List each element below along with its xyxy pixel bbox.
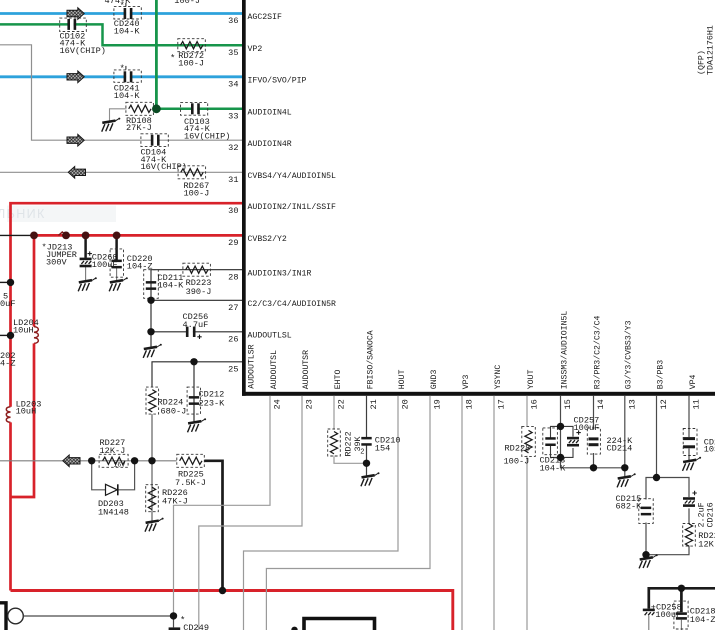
svg-text:0uF: 0uF [0,299,15,309]
wire CD260 lead thick [84,235,87,257]
resistor RD225 [177,454,205,467]
svg-text:100-J: 100-J [504,457,530,467]
arrow pin36 input [67,8,84,20]
wire pin15 CD213 loop [551,426,561,457]
ground pin13 net [617,473,636,487]
wire pin35 green VP2 [0,24,242,45]
svg-text:24: 24 [273,399,283,409]
svg-text:YOUT: YOUT [527,370,536,390]
wire CD220 lead thick [115,235,118,260]
svg-text:104-K: 104-K [114,26,141,36]
node diode right [131,457,138,464]
svg-text:16V(CHIP): 16V(CHIP) [184,131,230,141]
wire pin22 EHTO to RD222 [334,396,367,464]
capacitor C-CD240 [114,7,141,20]
svg-text:34: 34 [228,79,238,89]
wire CD216 RD229 branch [646,478,689,555]
svg-text:103-: 103- [704,445,715,455]
op-amp U2 bottom IC outline [304,619,375,630]
wire RD226 branch [151,461,153,521]
wire pin36 blue AGC2SIF [0,12,242,15]
svg-text:20: 20 [401,399,411,409]
wire CD258 bottom lead [648,616,650,630]
node CD214 bus [590,464,597,471]
wire CD249 lead [173,616,175,628]
wire pin31 gray CVBS4/Y4/AUDIOIN5L [0,171,242,173]
svg-text:30: 30 [228,206,238,216]
capacitor C-CD211 [144,270,159,299]
wire red vertical below LD204 [11,343,35,497]
resistor RD226 [146,485,159,512]
wire gray shield box to pin32 [0,45,242,140]
svg-text:300V: 300V [46,258,67,268]
connector pin circle [8,608,24,624]
svg-text:47K-J: 47K-J [162,496,188,506]
capacitor C-CD214 [587,428,600,454]
resistor RD229 [683,524,696,547]
svg-text:AUDIOIN2/IN1L/SSIF: AUDIOIN2/IN1L/SSIF [248,202,337,212]
capacitor C-CD218 [674,601,688,629]
svg-text:AUDOUTLSL: AUDOUTLSL [248,331,292,340]
capacitor C-CD241 [114,70,141,82]
wire pin12 B3/PB3 [656,396,658,478]
wire pin34 blue IFVO/SVO/PIP [0,75,242,78]
svg-text:100uF: 100uF [574,423,600,433]
svg-text:100-J: 100-J [174,0,200,6]
svg-text:104-K: 104-K [540,463,567,473]
wire RD227 row gray [0,460,177,462]
wire CD218 bottom lead [680,620,682,630]
wire red vertical below LD203 to bus [9,422,12,590]
ground RD226 [145,518,164,532]
node CD211-pin27 [147,297,154,304]
svg-text:11: 11 [692,399,702,409]
arrow pin32 input [67,134,84,146]
svg-text:CD249: CD249 [183,623,209,630]
wire RD224 bottom to row [151,414,153,461]
ground RD108 [102,118,121,132]
svg-text:VP4: VP4 [689,374,698,389]
node diode left [88,457,95,464]
svg-text:28: 28 [228,272,238,282]
node CD212 tap [190,358,197,365]
svg-text:FBISO/SANOCA: FBISO/SANOCA [365,330,375,389]
ground CD212 [188,418,207,432]
svg-text:GND3: GND3 [430,370,439,390]
svg-text:21: 21 [369,399,379,409]
svg-text:26: 26 [228,334,238,344]
svg-text:AUDIOIN4R: AUDIOIN4R [248,140,292,149]
node left stub1 [7,279,14,286]
svg-text:VP2: VP2 [248,45,263,54]
capacitor CD260 100uF electrolytic [80,251,92,267]
svg-text:CVBS4/Y4/AUDIOIN5L: CVBS4/Y4/AUDIOIN5L [248,171,337,181]
svg-text:29: 29 [228,238,238,248]
svg-text:IFVO/SVO/PIP: IFVO/SVO/PIP [248,75,307,85]
inductor LD203 on red vertical [6,407,10,423]
node thick-red bus [219,587,226,594]
svg-text:390-J: 390-J [186,287,212,297]
svg-text:AGC2SIF: AGC2SIF [248,13,282,22]
svg-text:RD228: RD228 [505,443,531,453]
mark star CD240 [120,1,126,11]
svg-text:CD214: CD214 [607,444,633,454]
op-amp U1 main IC TDA12176H1 bottom edge [242,392,715,396]
svg-text:104-Z: 104-Z [127,262,153,272]
capacitor C-CD210 [361,437,371,446]
svg-text:TDA12176H1: TDA12176H1 [707,25,715,75]
wire pin30 red AUDIOIN2/IN1L/SSIF [11,203,243,407]
svg-text:*: * [120,1,125,11]
resistor RD222 [328,429,341,456]
connector edge bottom-left [0,603,6,630]
wire pin25 AUDOUTLSR [152,362,242,387]
svg-text:AUDOUTSR: AUDOUTSR [302,350,311,389]
svg-text:12K-J: 12K-J [100,446,126,456]
capacitor CD256 4.7uF [186,327,202,339]
svg-text:12: 12 [659,399,669,409]
svg-text:18: 18 [465,399,475,409]
wire pin26 AUDOUTLSL [151,331,242,333]
inductor LD204 on red vertical [34,327,38,344]
node CD218 tap [678,585,685,592]
op-amp U1 main IC TDA12176H1 left edge [242,0,246,396]
wire pin15 CD257 loop [561,426,574,457]
node pin13 bus [621,464,628,471]
svg-text:*: * [120,64,125,74]
svg-text:G3/Y3/CVBS3/Y3: G3/Y3/CVBS3/Y3 [624,320,634,389]
svg-text:VP3: VP3 [462,374,471,389]
ground pin11 net [683,457,702,471]
svg-text:15: 15 [563,399,573,409]
svg-text:100-J: 100-J [178,59,204,69]
resistor RD223 [183,263,211,276]
capacitor CD216 2.2uF electrolytic [683,491,697,507]
capacitor CD249 top plate [169,627,181,630]
svg-text:7.5K-J: 7.5K-J [175,478,206,488]
wire green vertical to node pin33 [155,0,158,109]
node red junction 4 pin29 [113,232,121,240]
wire CD220 lower lead [116,268,118,281]
svg-text:16V(CHIP): 16V(CHIP) [60,46,106,56]
svg-text:19: 19 [433,399,443,409]
svg-text:31: 31 [228,175,238,185]
node RD224 row [148,457,155,464]
svg-text:474-K: 474-K [105,0,132,6]
wire CD260 lower lead [85,267,87,281]
jumper JD213 bump [59,232,67,235]
svg-text:AUDIOIN3/IN1R: AUDIOIN3/IN1R [248,268,312,278]
svg-text:*: * [170,53,175,63]
svg-text:INSSM3/AUDIOIN5L: INSSM3/AUDIOIN5L [559,311,569,390]
wire pin15 INSSM3 [561,396,625,468]
wire connector to CD249 [23,615,173,617]
wire black stub pin29 from left [0,234,32,236]
svg-text:25: 25 [228,364,238,374]
svg-text:14: 14 [596,399,606,409]
svg-text:YSYNC: YSYNC [494,365,503,390]
resistor RD228 [522,426,536,456]
capacitor C-CD213 [543,428,558,455]
wire pin17 YSYNC [493,396,495,630]
svg-text:104-K: 104-K [158,281,185,291]
resistor RD227 [99,454,128,467]
svg-text:R3/PR3/C2/C3/C4: R3/PR3/C2/C3/C4 [592,316,602,390]
svg-text:EHTO: EHTO [334,370,343,390]
capacitor C-CD220 [110,249,123,277]
capacitor C-CD217 [683,429,697,456]
svg-text:154: 154 [375,443,390,453]
arrow pin31 output [68,167,85,179]
node green junction pin33 [152,104,161,113]
svg-text:16V: 16V [114,461,126,468]
svg-text:AUDIOIN4L: AUDIOIN4L [248,108,292,117]
svg-text:22: 22 [337,399,347,409]
svg-text:16: 16 [530,399,540,409]
node pin15 top [557,423,564,430]
wire pin19 GND3 path [266,396,430,630]
wire diode loop DD203 [92,461,135,490]
svg-text:104-Z: 104-Z [690,615,715,625]
node CD249 [170,612,177,619]
wire CD212 branch [193,362,195,422]
ground CD220 [109,277,128,291]
node red junction 3 pin29 [82,232,90,240]
wire CD218 lead [680,588,683,612]
svg-text:1N4148: 1N4148 [98,507,129,517]
wire stub left cap net 2 [0,334,11,336]
node CD256-gnd [147,328,154,335]
wire CD215 branch [646,478,657,558]
wire pin16 YOUT through RD228 [526,396,528,630]
svg-text:680-J: 680-J [161,407,187,417]
arrow RD227 row output [63,455,80,467]
capacitor CD257 100uF electrolytic [567,430,581,446]
wire pin20 HOUT path [244,396,399,630]
svg-text:10uH: 10uH [16,407,37,417]
node CD215 gnd [642,551,649,558]
node pin21 gnd [363,460,370,467]
node pin12 tap [653,474,660,481]
wire pin14 R3/PR3 through CD214 [593,396,595,468]
wire red bus bottom [11,591,453,630]
svg-text:CVBS2/Y2: CVBS2/Y2 [248,234,287,244]
wire pin18 VP3 [461,396,463,630]
wire pin33 green AUDIOIN4L [153,108,242,111]
capacitor CD258 100uF electrolytic [643,609,655,616]
svg-text:10uH: 10uH [13,326,34,336]
svg-text:CD216: CD216 [706,502,715,527]
svg-text:AUDOUTSL: AUDOUTSL [270,350,279,389]
wire stub left cap net [0,281,11,283]
svg-text:33: 33 [228,111,238,121]
wire pin29 red CVBS2/Y2 [34,235,242,326]
svg-text:100-J: 100-J [184,189,210,199]
diode DD203 1N4148 [106,484,118,495]
resistor RD108 [126,102,153,115]
svg-text:17: 17 [497,399,507,409]
arrow pin34 input [67,71,84,83]
svg-text:682-K: 682-K [616,501,643,511]
svg-text:32: 32 [228,143,238,153]
svg-text:ЛЬНИК: ЛЬНИК [0,207,46,221]
wire thick black RD225 to red bus [204,461,222,591]
svg-text:13: 13 [627,399,637,409]
svg-text:AUDOUTLSR: AUDOUTLSR [248,344,257,388]
capacitor C-CD102 [60,18,87,31]
svg-text:12K-: 12K- [698,539,715,549]
mark star CD241 [120,64,126,74]
node pin15 bottom [557,454,564,461]
svg-text:27: 27 [228,303,238,313]
svg-text:RD222: RD222 [344,431,354,456]
ground CD211 net [143,344,162,358]
capacitor C-CD103 [181,102,208,115]
svg-text:100uF: 100uF [655,610,681,620]
node partial dot bottom edge [291,627,297,630]
svg-text:16V(CHIP): 16V(CHIP) [141,162,187,172]
resistor RD272 [178,39,206,52]
wire CD211 vertical [150,270,152,348]
svg-text:4-Z: 4-Z [0,359,15,369]
wire pin27 C2/C3/C4/AUDIOIN5R [151,299,242,301]
wire pin28 AUDIOIN3/IN1R [151,269,242,271]
svg-text:C2/C3/C4/AUDIOIN5R: C2/C3/C4/AUDIOIN5R [248,299,337,309]
svg-text:B3/PB3: B3/PB3 [655,360,665,390]
capacitor C-CD215 [639,499,653,524]
node left stub2 [7,332,14,339]
wire RD108 left lead [110,109,127,121]
wire pin23 AUDOUTSR path [199,396,302,630]
svg-text:35: 35 [228,48,238,58]
svg-text:39K: 39K [353,435,363,451]
node red junction 2 pin29 [62,232,70,240]
ground pin21 net [361,472,380,486]
svg-text:100uF: 100uF [92,260,118,270]
ground CD215 net [639,554,658,568]
node red junction 1 pin29 [30,232,38,240]
svg-text:36: 36 [228,16,238,26]
capacitor C-CD104 [141,134,168,147]
resistor RD267 [178,166,206,179]
svg-text:27K-J: 27K-J [126,123,152,133]
svg-text:HOUT: HOUT [398,370,407,390]
svg-text:(QFP): (QFP) [697,50,707,75]
capacitor C-CD212 [187,387,200,414]
wire pin11 VP4 [688,396,690,460]
svg-text:23: 23 [305,399,315,409]
svg-text:223-K: 223-K [199,398,226,408]
wire pin21 FBISO/SANOCA [366,396,368,476]
svg-text:104-K: 104-K [114,91,141,101]
wire pin24 AUDOUTSL path [174,396,271,616]
watermark band [7,206,116,223]
svg-text:4.7uF: 4.7uF [183,320,209,330]
ground CD260 [78,277,97,291]
wire pin13 G3/Y3 [624,396,626,477]
wire thick bottom-right net [649,588,715,608]
resistor RD224 [146,387,159,414]
